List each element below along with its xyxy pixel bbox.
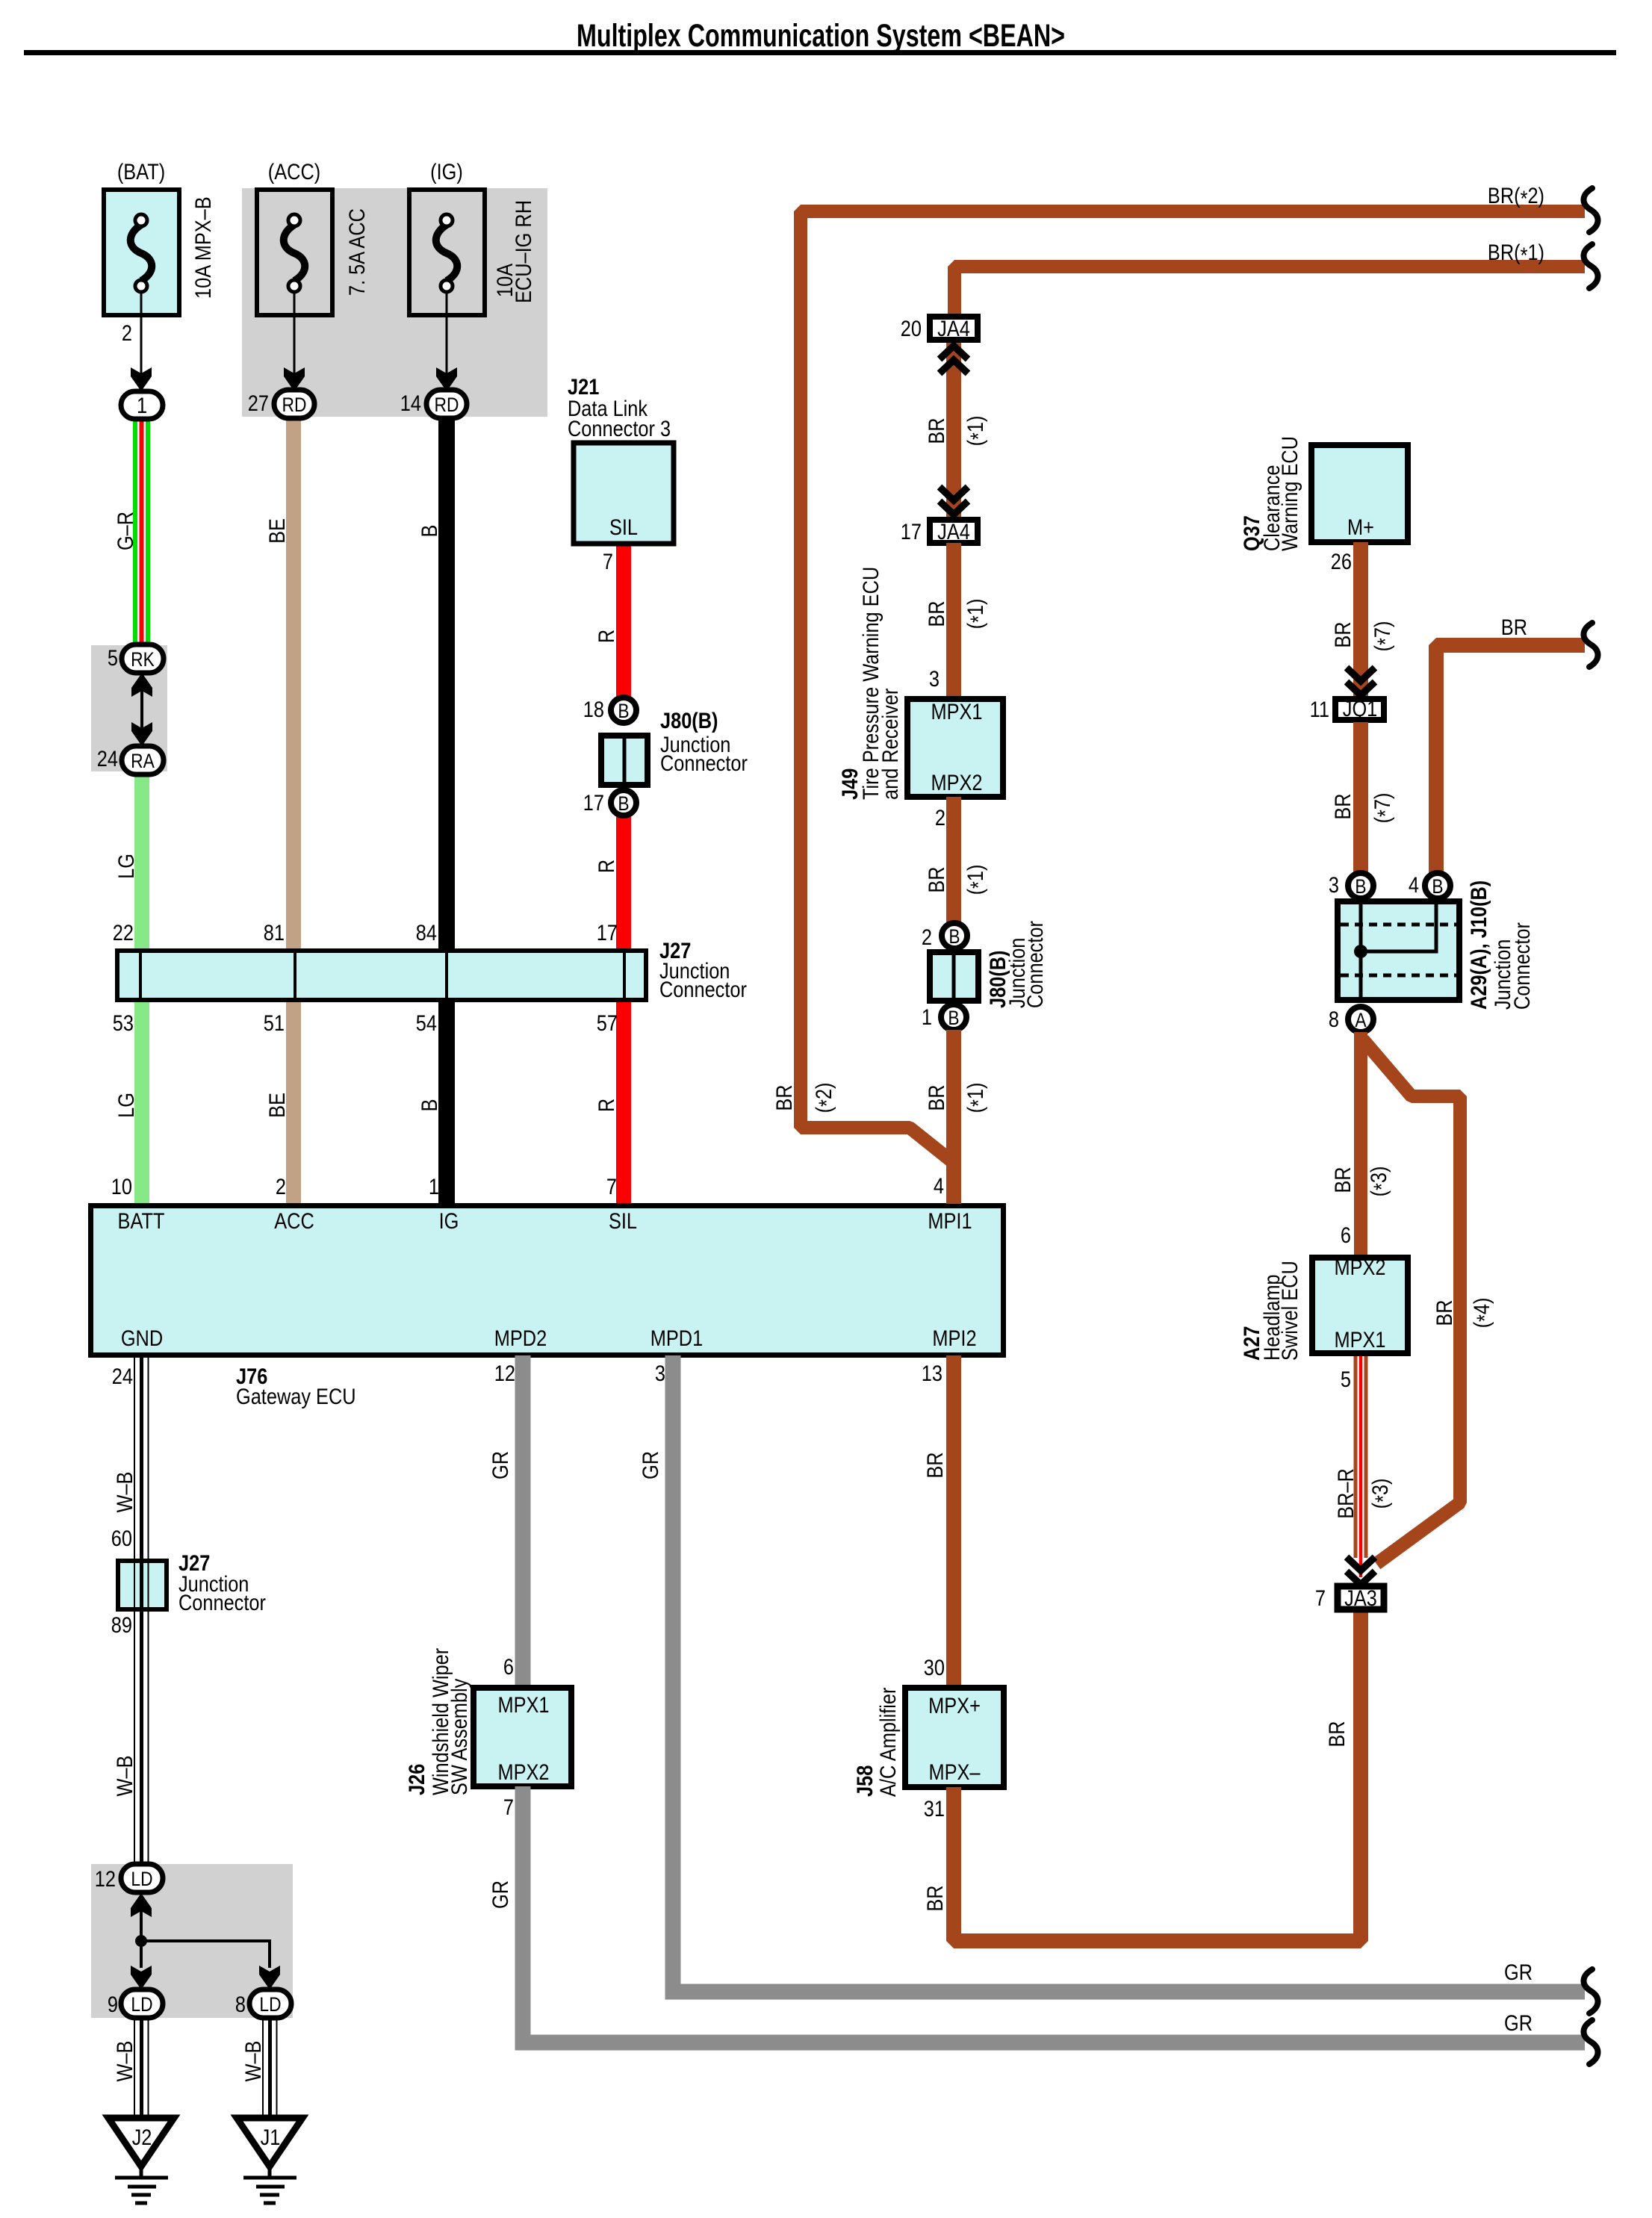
svg-text:B: B — [1432, 875, 1443, 898]
svg-text:B: B — [948, 1007, 959, 1029]
svg-text:11: 11 — [1310, 697, 1329, 721]
arrow up into 12 LD — [131, 1893, 152, 1917]
continuation brace GR upper — [1583, 1969, 1597, 2013]
svg-text:BE: BE — [264, 1093, 289, 1118]
svg-text:B: B — [417, 525, 441, 538]
svg-text:(*1): (*1) — [963, 1083, 990, 1113]
svg-text:JQ1: JQ1 — [1343, 696, 1377, 721]
svg-text:BR: BR — [924, 417, 948, 444]
wire from fuse IG to connector RD — [446, 292, 448, 381]
connector 17 JA4 — [901, 519, 978, 544]
svg-text:3: 3 — [929, 666, 940, 691]
svg-text:54: 54 — [416, 1010, 437, 1035]
wire BR(*7) from JQ1 to 3B — [1353, 722, 1368, 874]
svg-text:6: 6 — [1341, 1223, 1351, 1247]
arrow into connector 1 — [131, 367, 152, 391]
connector 3 B — [1329, 872, 1373, 898]
svg-text:6: 6 — [503, 1654, 514, 1679]
wire BR(*1) from 1B to gateway MPI1 — [946, 1030, 961, 1204]
connector RK (pin 5) with bidirectional arrow to RA (pin 24) — [108, 644, 164, 673]
svg-text:GR: GR — [1504, 1960, 1533, 1984]
svg-text:(*3): (*3) — [1367, 1479, 1395, 1509]
wire BR(*1) from JA4 20 to JA4 17 — [946, 343, 961, 517]
chevrons down to JA4 17 — [940, 487, 968, 515]
svg-text:B: B — [417, 1099, 441, 1112]
svg-text:53: 53 — [113, 1010, 134, 1035]
junction connector J27 (GND) — [118, 1550, 266, 1615]
svg-text:LD: LD — [259, 1993, 281, 2016]
svg-text:7: 7 — [603, 549, 613, 574]
arrow into connector RD — [436, 367, 457, 391]
svg-text:GR: GR — [638, 1451, 662, 1479]
svg-text:SW Assembly: SW Assembly — [447, 1679, 471, 1795]
svg-text:SIL: SIL — [609, 1208, 637, 1233]
svg-text:30: 30 — [924, 1655, 945, 1680]
J26 Windshield Wiper SW Assembly — [404, 1648, 571, 1795]
wire R from J27 to gateway SIL — [616, 1001, 631, 1204]
connector 7 JA3 — [1315, 1585, 1384, 1610]
svg-text:BR: BR — [922, 1452, 947, 1478]
svg-text:Swivel ECU: Swivel ECU — [1277, 1261, 1302, 1361]
connector 11 JQ1 — [1310, 696, 1384, 721]
continuation brace BR(*2) — [1583, 188, 1597, 232]
wire B from J27 to gateway IG — [438, 1001, 455, 1204]
wire LG from J27 to gateway BATT — [134, 1001, 149, 1204]
svg-text:MPX1: MPX1 — [1334, 1327, 1385, 1352]
svg-text:J2: J2 — [132, 2125, 152, 2149]
svg-text:8: 8 — [1329, 1007, 1339, 1031]
svg-text:3: 3 — [1329, 872, 1339, 897]
svg-text:1: 1 — [137, 393, 147, 417]
fuse 10A MPX-B (BAT) — [104, 159, 215, 315]
svg-text:BR: BR — [1432, 1299, 1456, 1326]
svg-text:BE: BE — [264, 518, 289, 544]
ground J1 — [237, 2118, 302, 2203]
connector 12 LD — [95, 1864, 163, 1892]
continuation brace GR lower — [1583, 2020, 1597, 2064]
A27 Headlamp Swivel ECU — [1239, 1255, 1408, 1361]
svg-text:7: 7 — [503, 1795, 514, 1819]
svg-text:BR: BR — [771, 1084, 796, 1110]
svg-text:GR: GR — [1504, 2010, 1533, 2035]
svg-text:2: 2 — [922, 925, 932, 949]
svg-text:8: 8 — [235, 1992, 246, 2016]
svg-text:Warning ECU: Warning ECU — [1277, 436, 1302, 551]
wire BE from J27 to gateway ACC — [286, 1001, 301, 1204]
svg-text:R: R — [594, 1099, 618, 1112]
svg-text:MPX1: MPX1 — [497, 1692, 549, 1717]
J27 junction connector bar — [117, 938, 747, 1001]
svg-text:14: 14 — [400, 391, 421, 415]
wire R from J21 SIL to J80(B) — [616, 546, 631, 698]
connector RD (pin 14) — [426, 390, 467, 418]
svg-text:IG: IG — [439, 1208, 459, 1233]
svg-text:13: 13 — [922, 1361, 943, 1385]
svg-text:51: 51 — [264, 1010, 285, 1035]
svg-text:12: 12 — [95, 1866, 116, 1891]
svg-text:J80(B): J80(B) — [660, 708, 718, 733]
svg-text:Connector: Connector — [178, 1590, 266, 1615]
svg-text:R: R — [594, 860, 618, 873]
continuation brace BR(*1) — [1583, 244, 1597, 288]
svg-text:(BAT): (BAT) — [117, 159, 165, 184]
svg-text:BR: BR — [924, 866, 948, 892]
svg-text:BATT: BATT — [118, 1208, 165, 1233]
svg-text:17: 17 — [597, 920, 618, 945]
svg-text:(IG): (IG) — [430, 159, 463, 184]
wire BR(*1) from J49 MPX2 to 2B — [946, 797, 961, 924]
svg-text:J1: J1 — [261, 2125, 281, 2149]
svg-text:4: 4 — [1409, 872, 1419, 897]
connector 9 LD — [108, 1989, 163, 2018]
svg-text:MPX1: MPX1 — [931, 699, 982, 724]
chevrons down to JQ1 — [1347, 668, 1375, 695]
gray background box LD connectors — [91, 1864, 293, 2018]
svg-text:BR–R: BR–R — [1333, 1468, 1358, 1519]
svg-text:12: 12 — [494, 1361, 515, 1385]
svg-text:BR: BR — [1330, 1167, 1355, 1193]
svg-text:(*1): (*1) — [963, 416, 990, 447]
double arrow between RK and RA — [131, 673, 152, 746]
arrow into connector RD — [284, 367, 305, 391]
J49 Tire Pressure Warning ECU and Receiver — [837, 567, 1003, 800]
svg-text:BR(*1): BR(*1) — [1488, 240, 1544, 267]
svg-text:3: 3 — [655, 1361, 665, 1385]
connector RA (pin 24) — [97, 746, 164, 774]
svg-text:9: 9 — [108, 1992, 118, 2016]
wire from arrow to junction dot — [140, 1908, 143, 1968]
wire BR-R from A27 MPX1 to JA3 chevrons — [1356, 1356, 1366, 1577]
svg-text:1: 1 — [429, 1174, 439, 1199]
svg-text:MPX2: MPX2 — [1334, 1255, 1385, 1279]
svg-text:MPD1: MPD1 — [650, 1326, 703, 1350]
svg-text:BR: BR — [924, 600, 948, 627]
chevrons down to JA3 — [1347, 1557, 1375, 1585]
svg-text:2: 2 — [935, 805, 945, 830]
svg-text:(*3): (*3) — [1366, 1167, 1394, 1197]
svg-text:MPX2: MPX2 — [497, 1759, 549, 1784]
svg-text:Connector: Connector — [659, 977, 747, 1001]
arrow down into 9 LD — [131, 1966, 152, 1989]
wire GR from gateway MPD2 to J26 — [515, 1355, 531, 1687]
J21 Data Link Connector 3 — [568, 374, 674, 544]
svg-text:BR: BR — [1324, 1721, 1349, 1747]
svg-text:2: 2 — [276, 1174, 286, 1199]
svg-text:BR: BR — [1330, 621, 1355, 647]
svg-text:MPX+: MPX+ — [928, 1693, 981, 1718]
wire from dot to 8 LD branch — [141, 1941, 270, 1968]
svg-text:BR: BR — [1501, 615, 1527, 639]
fuse 7.5A ACC — [257, 159, 369, 315]
fuse 10A ECU-IG RH — [409, 159, 535, 315]
svg-text:Connector: Connector — [660, 751, 748, 775]
junction connector J80(B) middle — [930, 921, 1047, 1008]
svg-text:GR: GR — [488, 1880, 512, 1909]
svg-text:RA: RA — [131, 750, 155, 772]
svg-text:MPX2: MPX2 — [931, 770, 982, 795]
wire GR from gateway MPD1 to right edge — [673, 1355, 1585, 1992]
svg-text:7: 7 — [606, 1174, 617, 1199]
svg-text:B: B — [1355, 875, 1366, 898]
svg-text:GND: GND — [121, 1326, 163, 1350]
svg-text:LG: LG — [114, 1093, 138, 1118]
svg-text:G–R: G–R — [113, 512, 137, 550]
svg-text:24: 24 — [112, 1364, 133, 1388]
svg-text:24: 24 — [97, 746, 118, 771]
svg-text:JA4: JA4 — [937, 519, 970, 544]
connector 8 A — [1329, 1007, 1373, 1032]
wire W-B from 8 LD to ground J1 — [263, 2018, 277, 2119]
svg-text:BR: BR — [922, 1885, 947, 1911]
svg-text:ACC: ACC — [274, 1208, 314, 1233]
svg-text:BR(*2): BR(*2) — [1488, 183, 1544, 211]
svg-text:26: 26 — [1331, 549, 1352, 574]
J58 A/C Amplifier — [852, 1688, 1004, 1797]
wire G-R from connector 1 to RK — [135, 419, 148, 646]
wire BR(*4) branch from 8A to JA3 chevrons — [1363, 1040, 1460, 1564]
continuation brace BR right — [1583, 623, 1597, 667]
gray background box RK/RA connector — [91, 645, 167, 771]
svg-text:J26: J26 — [404, 1764, 429, 1795]
svg-text:57: 57 — [597, 1010, 618, 1035]
connector 1 (oval) — [121, 391, 163, 419]
svg-text:A: A — [1355, 1009, 1367, 1031]
wire BR from right edge to 4B — [1436, 645, 1585, 874]
svg-text:and Receiver: and Receiver — [878, 689, 902, 800]
svg-text:(*2): (*2) — [811, 1083, 839, 1113]
svg-text:Gateway ECU: Gateway ECU — [236, 1384, 356, 1408]
svg-text:M+: M+ — [1347, 515, 1374, 539]
svg-text:A29(A), J10(B): A29(A), J10(B) — [1466, 880, 1491, 1010]
svg-text:Connector 3: Connector 3 — [568, 416, 671, 441]
svg-text:31: 31 — [924, 1796, 945, 1821]
wire B from connector RD to J27 — [438, 418, 455, 951]
svg-text:(*1): (*1) — [963, 865, 990, 895]
svg-text:J58: J58 — [852, 1765, 877, 1797]
junction dot — [135, 1935, 147, 1947]
wire LG from RA to J27 — [134, 774, 149, 951]
gray background box ACC/IG fuses — [242, 188, 547, 417]
svg-text:10: 10 — [111, 1174, 132, 1199]
junction connector J80(B) left — [601, 708, 748, 788]
svg-text:R: R — [594, 630, 618, 643]
svg-text:ECU–IG RH: ECU–IG RH — [511, 200, 535, 303]
connector 17 B — [583, 790, 636, 816]
svg-text:LD: LD — [131, 1868, 152, 1890]
svg-text:RD: RD — [435, 394, 459, 416]
wire GR from J26 MPX2 to right edge — [523, 1786, 1585, 2043]
wire W-B from gateway GND through J27 to 12 LD — [134, 1355, 149, 1867]
svg-text:1: 1 — [922, 1004, 932, 1029]
wire R from J80(B) to J27 — [616, 816, 631, 951]
svg-text:18: 18 — [583, 697, 604, 721]
svg-text:7: 7 — [1315, 1585, 1326, 1610]
svg-text:27: 27 — [248, 391, 269, 415]
connector RD (pin 27) — [274, 390, 314, 418]
svg-text:Multiplex Communication System: Multiplex Communication System <BEAN> — [577, 19, 1065, 55]
svg-text:BR: BR — [1330, 793, 1355, 819]
svg-text:MPX–: MPX– — [928, 1759, 981, 1784]
chevrons up to JA4 20 — [940, 346, 968, 373]
Q37 Clearance Warning ECU — [1239, 436, 1408, 551]
svg-text:B: B — [618, 792, 629, 815]
title rule — [24, 50, 1616, 55]
svg-text:W–B: W–B — [240, 2041, 265, 2082]
J76 Gateway ECU — [91, 1206, 1004, 1355]
junction connector A29(A), J10(B) — [1338, 880, 1534, 1010]
svg-text:(*1): (*1) — [963, 599, 990, 630]
wire BR(*3) from 8A to A27 MPX2 — [1354, 1032, 1367, 1258]
svg-text:22: 22 — [113, 920, 134, 945]
svg-text:MPI2: MPI2 — [932, 1326, 976, 1350]
connector 4 B — [1409, 872, 1450, 898]
wire BE from connector RD to J27 — [286, 418, 301, 951]
svg-text:MPD2: MPD2 — [494, 1326, 547, 1350]
svg-text:JA3: JA3 — [1344, 1585, 1377, 1610]
svg-text:BR: BR — [924, 1084, 948, 1110]
svg-text:(*7): (*7) — [1370, 793, 1397, 824]
connector 20 JA4 — [901, 316, 978, 341]
svg-text:(ACC): (ACC) — [268, 159, 320, 184]
wire from fuse ACC to connector RD — [294, 292, 296, 381]
svg-text:B: B — [618, 700, 629, 722]
svg-text:(*7): (*7) — [1370, 621, 1397, 652]
svg-text:Connector: Connector — [1022, 921, 1047, 1008]
svg-text:7. 5A ACC: 7. 5A ACC — [344, 208, 369, 296]
wire BR from gateway MPI2 to J58 — [946, 1355, 961, 1687]
svg-text:LG: LG — [114, 854, 138, 879]
arrow down into 8 LD — [259, 1966, 280, 1989]
svg-text:5: 5 — [108, 645, 118, 670]
wire W-B from 9 LD to ground J2 — [134, 2018, 149, 2119]
svg-text:JA4: JA4 — [937, 316, 970, 341]
wire BR(*2) horizontal top + vertical + merge into MPI1 — [801, 211, 1585, 1164]
connector 8 LD — [235, 1989, 291, 2018]
svg-text:Connector: Connector — [1509, 922, 1534, 1010]
svg-text:10A MPX–B: 10A MPX–B — [190, 196, 215, 299]
connector 18 B — [583, 697, 636, 723]
svg-text:84: 84 — [416, 920, 437, 945]
svg-text:4: 4 — [934, 1173, 944, 1198]
connector 1 B — [922, 1004, 966, 1030]
wire BR(*7) from Q37 M+ to JQ1 — [1353, 542, 1368, 697]
svg-text:17: 17 — [583, 790, 604, 815]
svg-text:RD: RD — [282, 394, 307, 416]
ground J2 — [108, 2118, 174, 2203]
wire from fuse BAT to connector 1 — [140, 292, 143, 381]
svg-text:W–B: W–B — [112, 1756, 137, 1797]
svg-text:RK: RK — [131, 648, 155, 671]
connector 2 B — [922, 923, 967, 949]
svg-text:5: 5 — [1341, 1367, 1351, 1391]
svg-text:A/C Amplifier: A/C Amplifier — [875, 1688, 900, 1797]
wire BR(*1) from JA4 17 to J49 MPX1 — [946, 543, 961, 698]
svg-text:81: 81 — [264, 920, 285, 945]
wire BR from J58 MPX- to JA3 — [954, 1612, 1361, 1941]
svg-text:W–B: W–B — [112, 1472, 137, 1513]
svg-text:2: 2 — [122, 320, 132, 345]
svg-text:LD: LD — [131, 1993, 152, 2016]
svg-text:GR: GR — [488, 1451, 512, 1479]
svg-text:W–B: W–B — [112, 2041, 137, 2082]
svg-text:MPI1: MPI1 — [928, 1208, 972, 1233]
svg-text:60: 60 — [111, 1526, 132, 1550]
svg-text:(*4): (*4) — [1469, 1298, 1497, 1329]
svg-text:SIL: SIL — [609, 515, 638, 539]
svg-text:17: 17 — [901, 519, 922, 544]
svg-text:20: 20 — [901, 316, 922, 341]
svg-text:89: 89 — [111, 1612, 132, 1637]
svg-text:B: B — [948, 925, 960, 948]
wire BR(*1) horizontal top to right edge — [954, 267, 1585, 314]
